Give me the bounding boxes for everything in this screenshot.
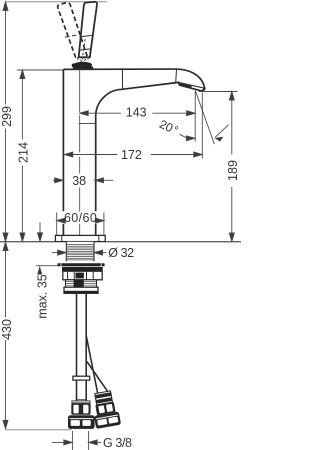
spout aerator dark wedge bbox=[180, 84, 192, 87]
dimension 143 bbox=[80, 111, 196, 116]
right hose crimp collar bbox=[95, 391, 113, 405]
dimension 189 reference line bbox=[199, 91, 238, 93]
max 35 bottom reference line bbox=[36, 265, 57, 267]
svg-text:172: 172 bbox=[121, 148, 142, 162]
20deg leader arrow right bbox=[215, 125, 229, 142]
svg-text:430: 430 bbox=[0, 319, 14, 340]
base plate bbox=[55, 235, 105, 241]
dimension 38 bbox=[53, 178, 113, 183]
right connector group bbox=[90, 390, 121, 429]
handle interior joint lines bbox=[77, 35, 91, 61]
spout segment tick 1 bbox=[121, 69, 123, 89]
dimension 214 reference line bbox=[17, 69, 63, 71]
left connector end cap bbox=[68, 415, 95, 429]
lever handle (dashed open position) bbox=[58, 3, 89, 60]
lever handle (solid position) bbox=[79, 2, 97, 58]
dimension G 3/8 arrows bbox=[52, 440, 101, 445]
extension line for 172 (spout tip vertical) bbox=[201, 93, 203, 159]
dimension 60/60 bbox=[57, 218, 104, 223]
spout segment tick 2 bbox=[175, 69, 178, 82]
mounting nut flange bbox=[57, 263, 104, 266]
max 35 top arrow bbox=[38, 223, 43, 242]
extension line for 143 (vertical at aerator) bbox=[194, 91, 196, 142]
dimension 430 vertical line bbox=[3, 242, 8, 429]
handle base bbox=[72, 62, 94, 69]
dimension 172 bbox=[64, 152, 202, 157]
body center line bbox=[79, 70, 81, 235]
countertop line bbox=[0, 241, 241, 243]
right supply hose bbox=[86, 337, 107, 394]
max 35 bottom arrow bbox=[37, 266, 42, 275]
dimension diameter 32 bbox=[52, 250, 106, 255]
right connector block bbox=[95, 402, 115, 415]
left hose collar bbox=[73, 376, 90, 380]
20deg leader arrow left bbox=[180, 134, 196, 141]
dimension G 3/8 ticks bbox=[72, 431, 88, 450]
spout aerator face inner line bbox=[179, 82, 205, 88]
svg-text:299: 299 bbox=[0, 106, 14, 127]
svg-text:189: 189 bbox=[226, 160, 240, 181]
bottom reference line (hose end) bbox=[6, 429, 72, 431]
mounting nut collar band bbox=[62, 267, 103, 271]
top reference line (handle top) bbox=[5, 1, 107, 3]
svg-text:214: 214 bbox=[17, 142, 31, 163]
dimension 189 vertical line bbox=[229, 92, 234, 242]
faucet body and spout outline bbox=[63, 69, 204, 236]
dimension 214 vertical line bbox=[20, 70, 25, 242]
svg-text:143: 143 bbox=[126, 106, 147, 120]
svg-text:Ø 32: Ø 32 bbox=[108, 246, 134, 260]
mounting nut slotted ring bbox=[63, 271, 102, 280]
svg-text:60/60: 60/60 bbox=[64, 211, 97, 225]
right connector end cap bbox=[94, 411, 121, 428]
mounting nut threaded section bbox=[66, 280, 97, 290]
svg-text:max. 35: max. 35 bbox=[36, 274, 50, 319]
svg-text:38: 38 bbox=[72, 174, 86, 188]
mounting nut bottom cap bbox=[64, 287, 98, 293]
svg-text:G 3/8: G 3/8 bbox=[103, 436, 132, 450]
threaded shank bbox=[66, 242, 94, 261]
body internal joint bar bbox=[79, 122, 96, 124]
left supply hose bbox=[77, 293, 87, 401]
dimension 60/60 extension lines bbox=[57, 213, 104, 236]
20 degree spray line bbox=[195, 91, 214, 145]
left connector thin band bbox=[72, 401, 90, 403]
left hose seam bbox=[77, 399, 87, 401]
left connector block bbox=[71, 403, 90, 415]
dimension 299 vertical line bbox=[3, 2, 8, 242]
